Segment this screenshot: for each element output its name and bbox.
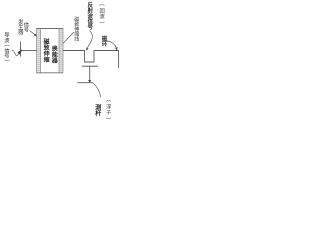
svg-text:磁致伸缩线: 磁致伸缩线 bbox=[74, 16, 79, 43]
svg-text:回波: 回波 bbox=[100, 7, 106, 20]
svg-text:磁致伸缩: 磁致伸缩 bbox=[43, 38, 50, 64]
svg-text:换能器: 换能器 bbox=[51, 45, 58, 65]
svg-text:磁环: 磁环 bbox=[102, 35, 108, 49]
svg-text:): ) bbox=[3, 60, 9, 62]
svg-text:浮子: 浮子 bbox=[106, 102, 112, 116]
svg-text:信号: 信号 bbox=[24, 21, 29, 34]
svg-text:测杆: 测杆 bbox=[95, 104, 102, 118]
svg-text:反射波信号: 反射波信号 bbox=[86, 1, 93, 31]
